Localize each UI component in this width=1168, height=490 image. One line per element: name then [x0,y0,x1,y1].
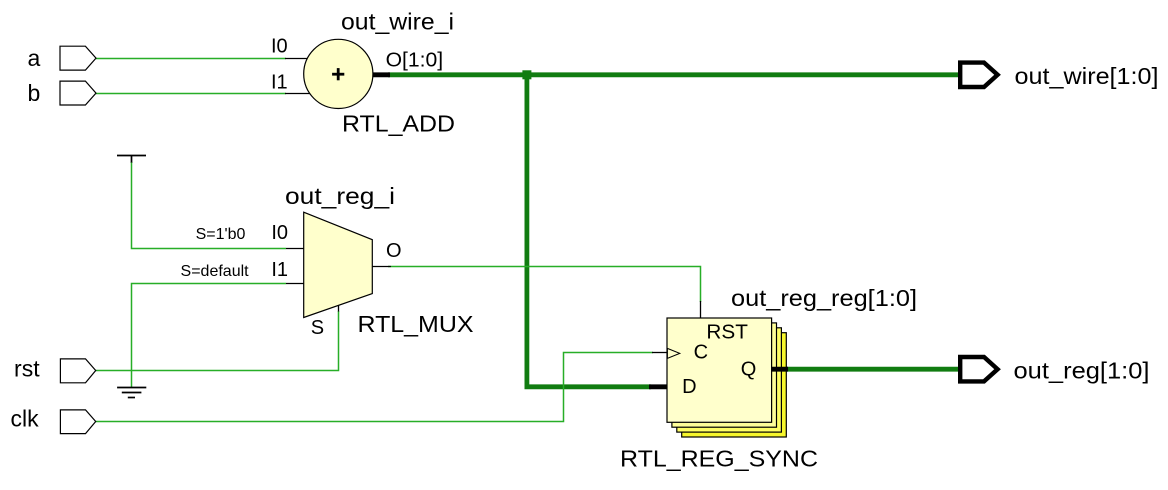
pin stub: register Q (thick black) [772,367,788,372]
wire: net a from port a to adder I0 [96,58,286,60]
wire: out_wire bus vertical branch down to register D [527,75,651,387]
label: instance name out_reg_i [285,183,395,209]
input port clk [60,410,95,434]
svg-text:I1: I1 [271,259,288,281]
pin stub: register RST (black, vertical) [700,301,702,318]
pin stub: register C (black) [652,352,667,354]
svg-text:clk: clk [10,406,39,432]
svg-text:S: S [311,317,324,339]
pin label: mux S [311,317,324,339]
register stack layer 2 [677,328,782,432]
wire: constant net from T bar down then right to mux I0 [132,163,287,249]
svg-text:C: C [694,342,708,364]
wire: out_wire bus from adder O to output port (thick) [388,72,959,77]
pin label: adder I0 [271,36,288,58]
svg-text:rst: rst [14,356,40,382]
svg-text:RTL_ADD: RTL_ADD [342,111,455,137]
pin label: adder I1 [271,71,288,93]
pin stub: adder I0 [285,58,308,60]
svg-text:D: D [682,376,696,398]
input port a [60,46,96,70]
label: instance name out_reg_reg[1:0] [731,285,917,311]
ground [117,388,146,398]
pin label: register RST [706,322,748,344]
label: cell type RTL_MUX [358,311,474,337]
input port b [60,81,96,105]
wire: net clk from port clk to register C [96,353,653,422]
svg-text:out_wire[1:0]: out_wire[1:0] [1015,63,1159,89]
label: cell type RTL_REG_SYNC [620,445,818,471]
pin stub: mux I1 [286,283,304,285]
port label rst [14,356,40,382]
port label b [28,80,41,106]
port label out_wire[1:0] [1015,63,1159,89]
plus sign inside adder [332,68,344,80]
svg-text:out_reg_i: out_reg_i [285,183,395,209]
junction on out_wire bus [522,70,531,79]
svg-text:I0: I0 [271,36,288,58]
svg-text:O[1:0]: O[1:0] [386,50,444,72]
pin stub: mux O [372,266,391,268]
pin label: mux I1 [271,259,288,281]
svg-text:b: b [28,80,41,106]
power symbol: constant-1 bar (T) [117,155,146,163]
wire: out_reg bus from register Q to output port (thick) [786,367,960,372]
pin label: mux O [386,240,402,262]
svg-text:S=1'b0: S=1'b0 [196,226,246,243]
svg-text:a: a [28,45,41,71]
svg-text:O: O [386,240,402,262]
clock triangle on register C pin [667,348,679,358]
pin label: register Q [741,359,757,381]
register stack layer 1 [672,323,777,427]
svg-text:out_wire_i: out_wire_i [341,8,454,34]
output port out_wire[1:0] (thick outline) [960,63,997,87]
register U out_reg_reg RTL_REG_SYNC main body [667,318,772,422]
port label clk [10,406,39,432]
port label a [28,45,41,71]
svg-text:RTL_REG_SYNC: RTL_REG_SYNC [620,445,818,471]
label: cell type RTL_ADD [342,111,455,137]
pin stub: register D (thick black) [649,384,667,389]
svg-text:out_reg_reg[1:0]: out_reg_reg[1:0] [731,285,917,311]
wire: constant-0 net from mux I1 left then down to ground [132,284,287,388]
wire: net b from port b to adder I1 [96,93,286,95]
pin label: mux I0 [271,222,288,244]
pin stub: adder I1 [285,93,311,95]
svg-text:RST: RST [706,322,748,344]
pin stub: mux S (black) [338,305,340,312]
svg-text:I0: I0 [271,222,288,244]
pin label: register C [694,342,708,364]
port label out_reg[1:0] [1014,358,1150,384]
input port rst [60,359,95,383]
pin stub: mux I0 [286,248,304,250]
pin label: register D [682,376,696,398]
wire: net rst from port rst to mux select S [96,311,339,371]
svg-text:S=default: S=default [181,263,250,280]
svg-text:Q: Q [741,359,757,381]
condition label: S=1'b0 [196,226,246,243]
label: instance name out_wire_i [341,8,454,34]
output port out_reg[1:0] (thick outline) [960,357,997,381]
mux U out_reg_i RTL_MUX trapezoid body [304,212,373,317]
pin label: adder output O[1:0] [386,50,444,72]
wire: net from mux output O to register RST pin [388,267,701,303]
svg-text:RTL_MUX: RTL_MUX [358,311,474,337]
svg-text:I1: I1 [271,71,288,93]
svg-text:out_reg[1:0]: out_reg[1:0] [1014,358,1150,384]
register stack layer 3 (bottom) [682,333,787,437]
pin stub: adder O (thick black) [372,72,390,77]
op: adder U out_wire_i RTL_ADD circle body [304,39,373,108]
condition label: S=default [181,263,250,280]
